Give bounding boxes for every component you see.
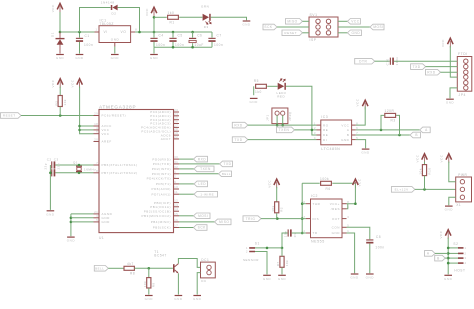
junction RESET pullup: [59, 114, 62, 117]
svg-text:LTC485N: LTC485N: [321, 147, 340, 151]
svg-text:GND: GND: [174, 297, 183, 301]
svg-text:B: B: [347, 133, 350, 137]
ground under JP4: [446, 99, 455, 105]
power flag VCC at X1: [440, 154, 452, 163]
wire SCK to SV1: [277, 26, 309, 28]
svg-text:PC6(/RESET): PC6(/RESET): [102, 114, 127, 118]
junction output at C5: [172, 31, 175, 34]
wire VCC to R10: [424, 162, 426, 165]
capacitor C2 22p: [51, 161, 55, 168]
svg-text:VCC: VCC: [358, 178, 362, 186]
voltage regulator IC1 78L05Z: [96, 19, 138, 43]
svg-text:D1: D1: [51, 32, 55, 37]
svg-text:GND: GND: [111, 56, 120, 60]
svg-text:24: 24: [174, 112, 178, 116]
svg-text:78L05Z: 78L05Z: [100, 22, 114, 26]
resistor R3 120R: [385, 109, 396, 123]
svg-text:AREF: AREF: [102, 140, 112, 144]
junction R10: [423, 188, 426, 191]
svg-text:PD0(RXD): PD0(RXD): [152, 157, 171, 161]
wire TXEN net: [295, 129, 317, 131]
power flag VCC input: [51, 4, 63, 13]
wire R7 top: [281, 248, 283, 256]
wire LED3 to DE node: [286, 86, 317, 135]
svg-text:IC3: IC3: [321, 115, 328, 119]
pin IC3 left: [317, 134, 321, 136]
wire B net: [356, 134, 410, 136]
wire 5V output rail: [135, 31, 212, 33]
net flag MISO: [286, 19, 303, 25]
wire X1 pin3 to ground: [449, 197, 456, 205]
svg-text:TXD: TXD: [223, 162, 231, 166]
power flag VCC output: [145, 7, 157, 16]
power flag VCC at 555: [353, 178, 362, 188]
wire +12V to X1: [415, 188, 456, 190]
svg-text:GND: GND: [361, 151, 370, 155]
wire C7 bottom: [211, 42, 213, 47]
junction crystal bottom: [78, 172, 81, 175]
svg-text:4: 4: [96, 126, 98, 130]
wire C9 to TR: [292, 232, 306, 234]
wire SV1 to MOSI flag: [338, 26, 370, 28]
svg-text:MOSI: MOSI: [198, 214, 208, 218]
svg-text:PD6(AIN0): PD6(AIN0): [152, 187, 171, 191]
wire input node to C1: [79, 32, 81, 38]
FTDI pin circle: [464, 86, 468, 90]
wire R7 to ground: [281, 268, 283, 275]
net flag LED: [194, 181, 208, 187]
junction C3 gnd: [49, 172, 52, 175]
resistor R6 100k: [320, 177, 331, 191]
wire X1 pin1 to VCC: [449, 162, 456, 182]
capacitor C2 C3 labels: [44, 158, 61, 170]
svg-text:2: 2: [246, 250, 248, 254]
svg-text:THR: THR: [313, 202, 321, 206]
wire C10 to JP4 pin1: [394, 60, 457, 62]
svg-text:DI: DI: [323, 138, 327, 142]
pin IC2 left: [306, 203, 311, 205]
wire XTAL1 net: [55, 164, 93, 166]
svg-text:PD3(INT1): PD3(INT1): [152, 172, 171, 176]
svg-text:R3: R3: [391, 119, 396, 123]
wire BELL to R8: [108, 267, 124, 269]
svg-text:PB6(XTAL1/TOSC1): PB6(XTAL1/TOSC1): [102, 163, 138, 167]
svg-text:ATMEGA328P: ATMEGA328P: [99, 105, 136, 110]
ground under DC1: [193, 295, 202, 301]
svg-text:6: 6: [96, 130, 98, 134]
ISP header SV1 body: [309, 13, 338, 42]
svg-text:TXD: TXD: [413, 65, 421, 69]
svg-text:R2: R2: [280, 207, 284, 212]
pin number IC2 left: [304, 200, 306, 204]
wire IC3 GND: [356, 140, 366, 149]
wire bypass diode to output node: [118, 8, 140, 33]
pin IC3 right: [352, 134, 356, 136]
svg-text:R2: R2: [54, 101, 58, 106]
capacitor C7 100n: [208, 33, 223, 46]
resistor R2 10k pullup: [54, 96, 67, 107]
svg-text:C3: C3: [54, 158, 59, 162]
svg-text:BC547: BC547: [154, 253, 167, 257]
capacitor C10 100n: [386, 57, 400, 66]
svg-text:GND: GND: [75, 56, 84, 60]
pin IC2 right: [342, 218, 347, 220]
svg-text:GND: GND: [102, 220, 111, 224]
pin number IC3 left: [314, 121, 316, 125]
wire VCC arrow to rail: [153, 16, 155, 32]
ISP pin circle: [326, 25, 330, 29]
wire input node to IC1 VI: [60, 31, 95, 33]
svg-text:PB7(XTAL2/TOSC2): PB7(XTAL2/TOSC2): [102, 171, 138, 175]
junction R2 on DIS: [276, 217, 279, 220]
wire R9 to ground: [148, 288, 150, 295]
net flag MOSI at SV1: [370, 24, 384, 30]
svg-text:NE555: NE555: [311, 240, 325, 244]
pin IC3 right: [352, 124, 356, 126]
svg-text:14: 14: [174, 207, 178, 211]
wire to VCC pin4: [80, 129, 94, 131]
power flag VCC at JP4: [441, 38, 453, 47]
net flag GND at SV1: [347, 30, 361, 36]
pin number IC3 left: [314, 136, 316, 140]
svg-text:R5: R5: [254, 79, 259, 83]
svg-text:R7: R7: [276, 261, 280, 266]
wire to AVCC pin: [80, 125, 94, 127]
junction lower rail C6: [191, 46, 194, 49]
wire PD3 BELL: [179, 173, 219, 175]
svg-text:PB4(MISO): PB4(MISO): [151, 220, 171, 224]
svg-text:VCC: VCC: [441, 39, 445, 47]
svg-text:FTDI: FTDI: [458, 52, 468, 56]
svg-text:HOST: HOST: [454, 268, 465, 272]
svg-text:IC2: IC2: [311, 194, 318, 198]
svg-text:23: 23: [174, 108, 178, 112]
connector S1 SENSOR pins: [243, 242, 260, 262]
FTDI pin circle: [464, 75, 468, 79]
net flag TXD at JP4: [411, 64, 426, 70]
svg-text:GND: GND: [332, 231, 341, 235]
svg-text:GND: GND: [250, 100, 259, 104]
wire bypass from input node up: [80, 8, 111, 33]
wire PB5 SCK: [179, 227, 194, 229]
ground under S2: [444, 275, 453, 281]
junction S1 pin1: [266, 247, 269, 250]
junction output at C6: [191, 31, 194, 34]
ground under S1: [263, 275, 272, 281]
resistor R5 1k0: [254, 79, 267, 94]
power flag VCC at R2: [268, 179, 280, 188]
wire S2 VCC rail: [447, 238, 449, 275]
svg-text:16MHz: 16MHz: [84, 167, 96, 171]
wire DTR to C10: [375, 60, 390, 62]
net flag TXEN: [194, 166, 214, 172]
LED D3 GRN: [201, 5, 211, 30]
pin number IC2 right: [347, 215, 349, 219]
svg-text:SCK: SCK: [264, 25, 273, 29]
junction output at VCC arrow: [153, 31, 156, 34]
net flag RXD at JP4: [426, 69, 441, 75]
net flag A at S2: [425, 251, 436, 257]
svg-text:15: 15: [174, 212, 178, 216]
junction at C1 top: [78, 31, 81, 34]
net flag +12V input: [391, 187, 415, 193]
wire IC3 VCC: [356, 107, 365, 126]
svg-text:13: 13: [174, 203, 178, 207]
wire IC1 GND down: [114, 47, 116, 54]
svg-text:DIS: DIS: [313, 217, 320, 221]
svg-text:R9: R9: [152, 282, 156, 287]
zener diode D1: [51, 32, 65, 54]
net flag SCK at U1: [194, 225, 208, 231]
wire GND pin3: [71, 217, 94, 219]
pin number IC3 right: [356, 126, 358, 130]
svg-text:DC1: DC1: [201, 258, 209, 262]
wire RO net: [248, 124, 317, 126]
junction TR: [301, 232, 304, 235]
svg-text:PB2(SS/OC1B): PB2(SS/OC1B): [144, 209, 171, 213]
svg-text:1: 1: [246, 246, 248, 250]
svg-text:GND: GND: [278, 277, 287, 281]
svg-text:1k0: 1k0: [255, 90, 262, 94]
net flag A at IC3: [420, 127, 431, 133]
LED LED3 RED: [277, 79, 287, 99]
svg-text:A: A: [347, 128, 350, 132]
pin IC2 right: [342, 226, 347, 228]
net flag MOSI at U1: [194, 213, 211, 219]
junction S2 pin: [447, 247, 450, 250]
wire RESET net: [21, 115, 94, 117]
svg-text:17: 17: [174, 224, 178, 228]
svg-text:DE: DE: [323, 133, 328, 137]
wire LED to ground: [211, 17, 247, 20]
svg-text:10k: 10k: [285, 260, 289, 267]
svg-text:D2: D2: [112, 12, 117, 16]
svg-text:1: 1: [314, 121, 316, 125]
wire R1 to LED D3: [179, 16, 202, 18]
wire DI net: [248, 139, 317, 141]
wire TXD to JP4: [426, 66, 458, 68]
wire C8 to ground: [369, 244, 371, 274]
svg-text:32: 32: [174, 165, 178, 169]
svg-text:MISO: MISO: [219, 220, 229, 224]
net flag BELL: [219, 171, 232, 177]
svg-text:18: 18: [94, 122, 98, 126]
wire JP4 pin6 to ground: [450, 88, 457, 98]
svg-text:8: 8: [135, 28, 137, 32]
pin IC2 right: [342, 232, 347, 234]
svg-text:29: 29: [94, 112, 98, 116]
svg-text:PD1(TXD): PD1(TXD): [153, 162, 171, 166]
svg-text:GND: GND: [67, 239, 76, 243]
svg-text:VCC: VCC: [102, 132, 110, 136]
ground under IC2: [350, 273, 359, 279]
wire S1 pin1: [255, 247, 282, 249]
svg-text:1k0: 1k0: [168, 11, 175, 15]
FTDI pin circle: [464, 64, 468, 68]
svg-text:10k: 10k: [63, 99, 67, 106]
wire VCC to AVCC and VCC pins: [80, 87, 94, 134]
svg-text:100n: 100n: [214, 43, 223, 47]
svg-text:10k: 10k: [271, 205, 275, 212]
wire 555 GND: [347, 233, 355, 273]
svg-text:1: 1: [174, 170, 176, 174]
net flag RXD: [194, 156, 208, 162]
junction JP1b on RO: [281, 124, 284, 127]
pin IC3 left: [317, 139, 321, 141]
wire VCC to R2: [276, 187, 278, 202]
svg-text:10k: 10k: [143, 281, 147, 288]
pin number IC3 right: [356, 131, 358, 135]
junction A termination: [380, 129, 383, 132]
svg-text:1-WIRE: 1-WIRE: [200, 192, 214, 196]
power flag VCC for R1 pullup: [51, 79, 63, 88]
wire PB4 MISO: [179, 221, 215, 223]
svg-text:VCC: VCC: [440, 154, 444, 162]
svg-text:PWR: PWR: [458, 173, 467, 177]
power flag VCC at S2: [439, 230, 451, 239]
svg-text:GND: GND: [111, 38, 120, 42]
wire SV1 to VCC flag: [338, 20, 347, 22]
svg-text:2: 2: [314, 126, 316, 130]
ISP pin circle: [326, 31, 330, 35]
U1 left pins: [94, 112, 138, 225]
svg-text:3: 3: [347, 215, 349, 219]
pin number IC3 left: [314, 126, 316, 130]
svg-text:DTR: DTR: [359, 59, 367, 63]
net flag B at IC3: [410, 132, 421, 138]
net flag TXD at IC3: [232, 137, 248, 143]
wire C6 bottom: [192, 43, 194, 47]
wire /RES tie: [347, 204, 348, 209]
resistor R8 4k7: [124, 262, 135, 275]
ISP pin circle: [316, 25, 320, 29]
pin number IC3 right: [356, 136, 358, 140]
power flag VCC at R10: [415, 154, 427, 163]
svg-text:BELL: BELL: [222, 172, 231, 176]
diode D2 1N4148: [101, 0, 118, 15]
power flag VCC for AVCC: [70, 79, 82, 88]
svg-text:1: 1: [96, 28, 98, 32]
wire lower ground rail: [154, 46, 212, 48]
net flag VCC at SV1: [347, 19, 360, 25]
svg-text:R8: R8: [130, 271, 135, 275]
pin number IC3 left: [314, 131, 316, 135]
net flag DTR: [355, 58, 375, 64]
resistor R2 10k: [271, 202, 284, 213]
svg-text:OUT: OUT: [332, 217, 340, 221]
net flag BELL at T1: [94, 266, 108, 272]
svg-text:JP2Q: JP2Q: [288, 111, 292, 121]
resistor R10 10k: [419, 165, 432, 176]
junction GND pin5: [70, 221, 73, 224]
junction B termination: [398, 134, 401, 137]
svg-text:RE: RE: [323, 128, 328, 132]
svg-text:C1: C1: [85, 34, 90, 38]
net flag TXEN at IC3: [277, 127, 295, 133]
svg-text:10n: 10n: [283, 231, 287, 238]
ground under IC3: [361, 149, 370, 155]
wire GND pin5: [71, 221, 94, 223]
net flag RXD at IC3: [232, 122, 248, 128]
ground after LED D3: [242, 20, 251, 26]
svg-text:SENSOR: SENSOR: [243, 258, 259, 262]
svg-text:U1: U1: [99, 236, 104, 240]
wire VCC+ net: [347, 184, 356, 204]
pin number IC2 right: [347, 200, 349, 204]
svg-text:A: A: [427, 252, 430, 256]
resistor R1 1k0: [168, 11, 179, 25]
svg-text:/RES: /RES: [331, 207, 340, 211]
svg-text:GRN: GRN: [201, 5, 209, 9]
pin number IC2 right: [347, 224, 349, 228]
svg-text:VCC: VCC: [351, 20, 360, 24]
capacitor C5 100n: [169, 33, 184, 46]
svg-text:C10: C10: [386, 58, 390, 65]
junction S2 pin: [447, 252, 450, 255]
svg-text:20: 20: [94, 138, 98, 142]
ground under C8: [366, 273, 375, 279]
ground under U1: [67, 237, 76, 243]
wire 555 feedback left: [302, 182, 320, 184]
wire A to R3: [381, 115, 384, 129]
wire XTAL2 net: [55, 172, 93, 174]
svg-text:1N4148: 1N4148: [101, 0, 115, 4]
pin IC2 right: [342, 203, 347, 205]
transistor T1 BC547: [154, 250, 178, 274]
wire R8 to base: [134, 267, 173, 269]
svg-text:RESET: RESET: [3, 114, 16, 118]
wire C5 bottom: [172, 42, 174, 47]
svg-text:VCC: VCC: [439, 230, 443, 238]
wire PD7 1-WIRE: [179, 193, 194, 195]
svg-text:SCK: SCK: [198, 226, 207, 230]
svg-text:VCC: VCC: [355, 98, 359, 106]
wire C4 leads: [153, 32, 155, 38]
svg-text:GND: GND: [366, 276, 375, 280]
svg-text:30: 30: [174, 155, 178, 159]
svg-text:B: B: [437, 256, 440, 260]
ground under C4 rail: [150, 54, 159, 60]
wire R2 to DIS: [276, 213, 278, 218]
timer IC2 NE555 body: [311, 194, 343, 244]
junction input node: [59, 31, 62, 34]
svg-text:VCC: VCC: [415, 154, 419, 162]
svg-text:R10: R10: [427, 167, 431, 174]
junction VCC+ RES: [354, 202, 357, 205]
junction JP1 on RO: [276, 124, 279, 127]
svg-text:GND: GND: [445, 208, 454, 212]
svg-text:S2: S2: [453, 242, 458, 246]
svg-text:RED: RED: [277, 94, 285, 98]
ISP pin circle: [316, 31, 320, 35]
header S2 HOST pins: [448, 242, 466, 272]
crystal Q1 16MHz: [73, 160, 96, 172]
wire RXD to JP4: [441, 71, 458, 73]
net flag MISO at U1: [215, 219, 232, 225]
junction VCC pin4: [78, 129, 81, 132]
svg-text:VCC: VCC: [145, 8, 149, 16]
junction S1 R7: [281, 247, 284, 250]
wire PD1 TXD: [179, 163, 220, 165]
svg-text:9: 9: [174, 180, 176, 184]
svg-text:GND: GND: [145, 297, 154, 301]
svg-text:ISP: ISP: [310, 38, 317, 42]
svg-text:22: 22: [174, 135, 178, 139]
wire caps to ground: [49, 165, 51, 210]
svg-text:TXEN: TXEN: [279, 128, 290, 132]
wire VCC to JP4 pin4: [450, 46, 457, 77]
svg-text:JP1: JP1: [265, 114, 269, 121]
